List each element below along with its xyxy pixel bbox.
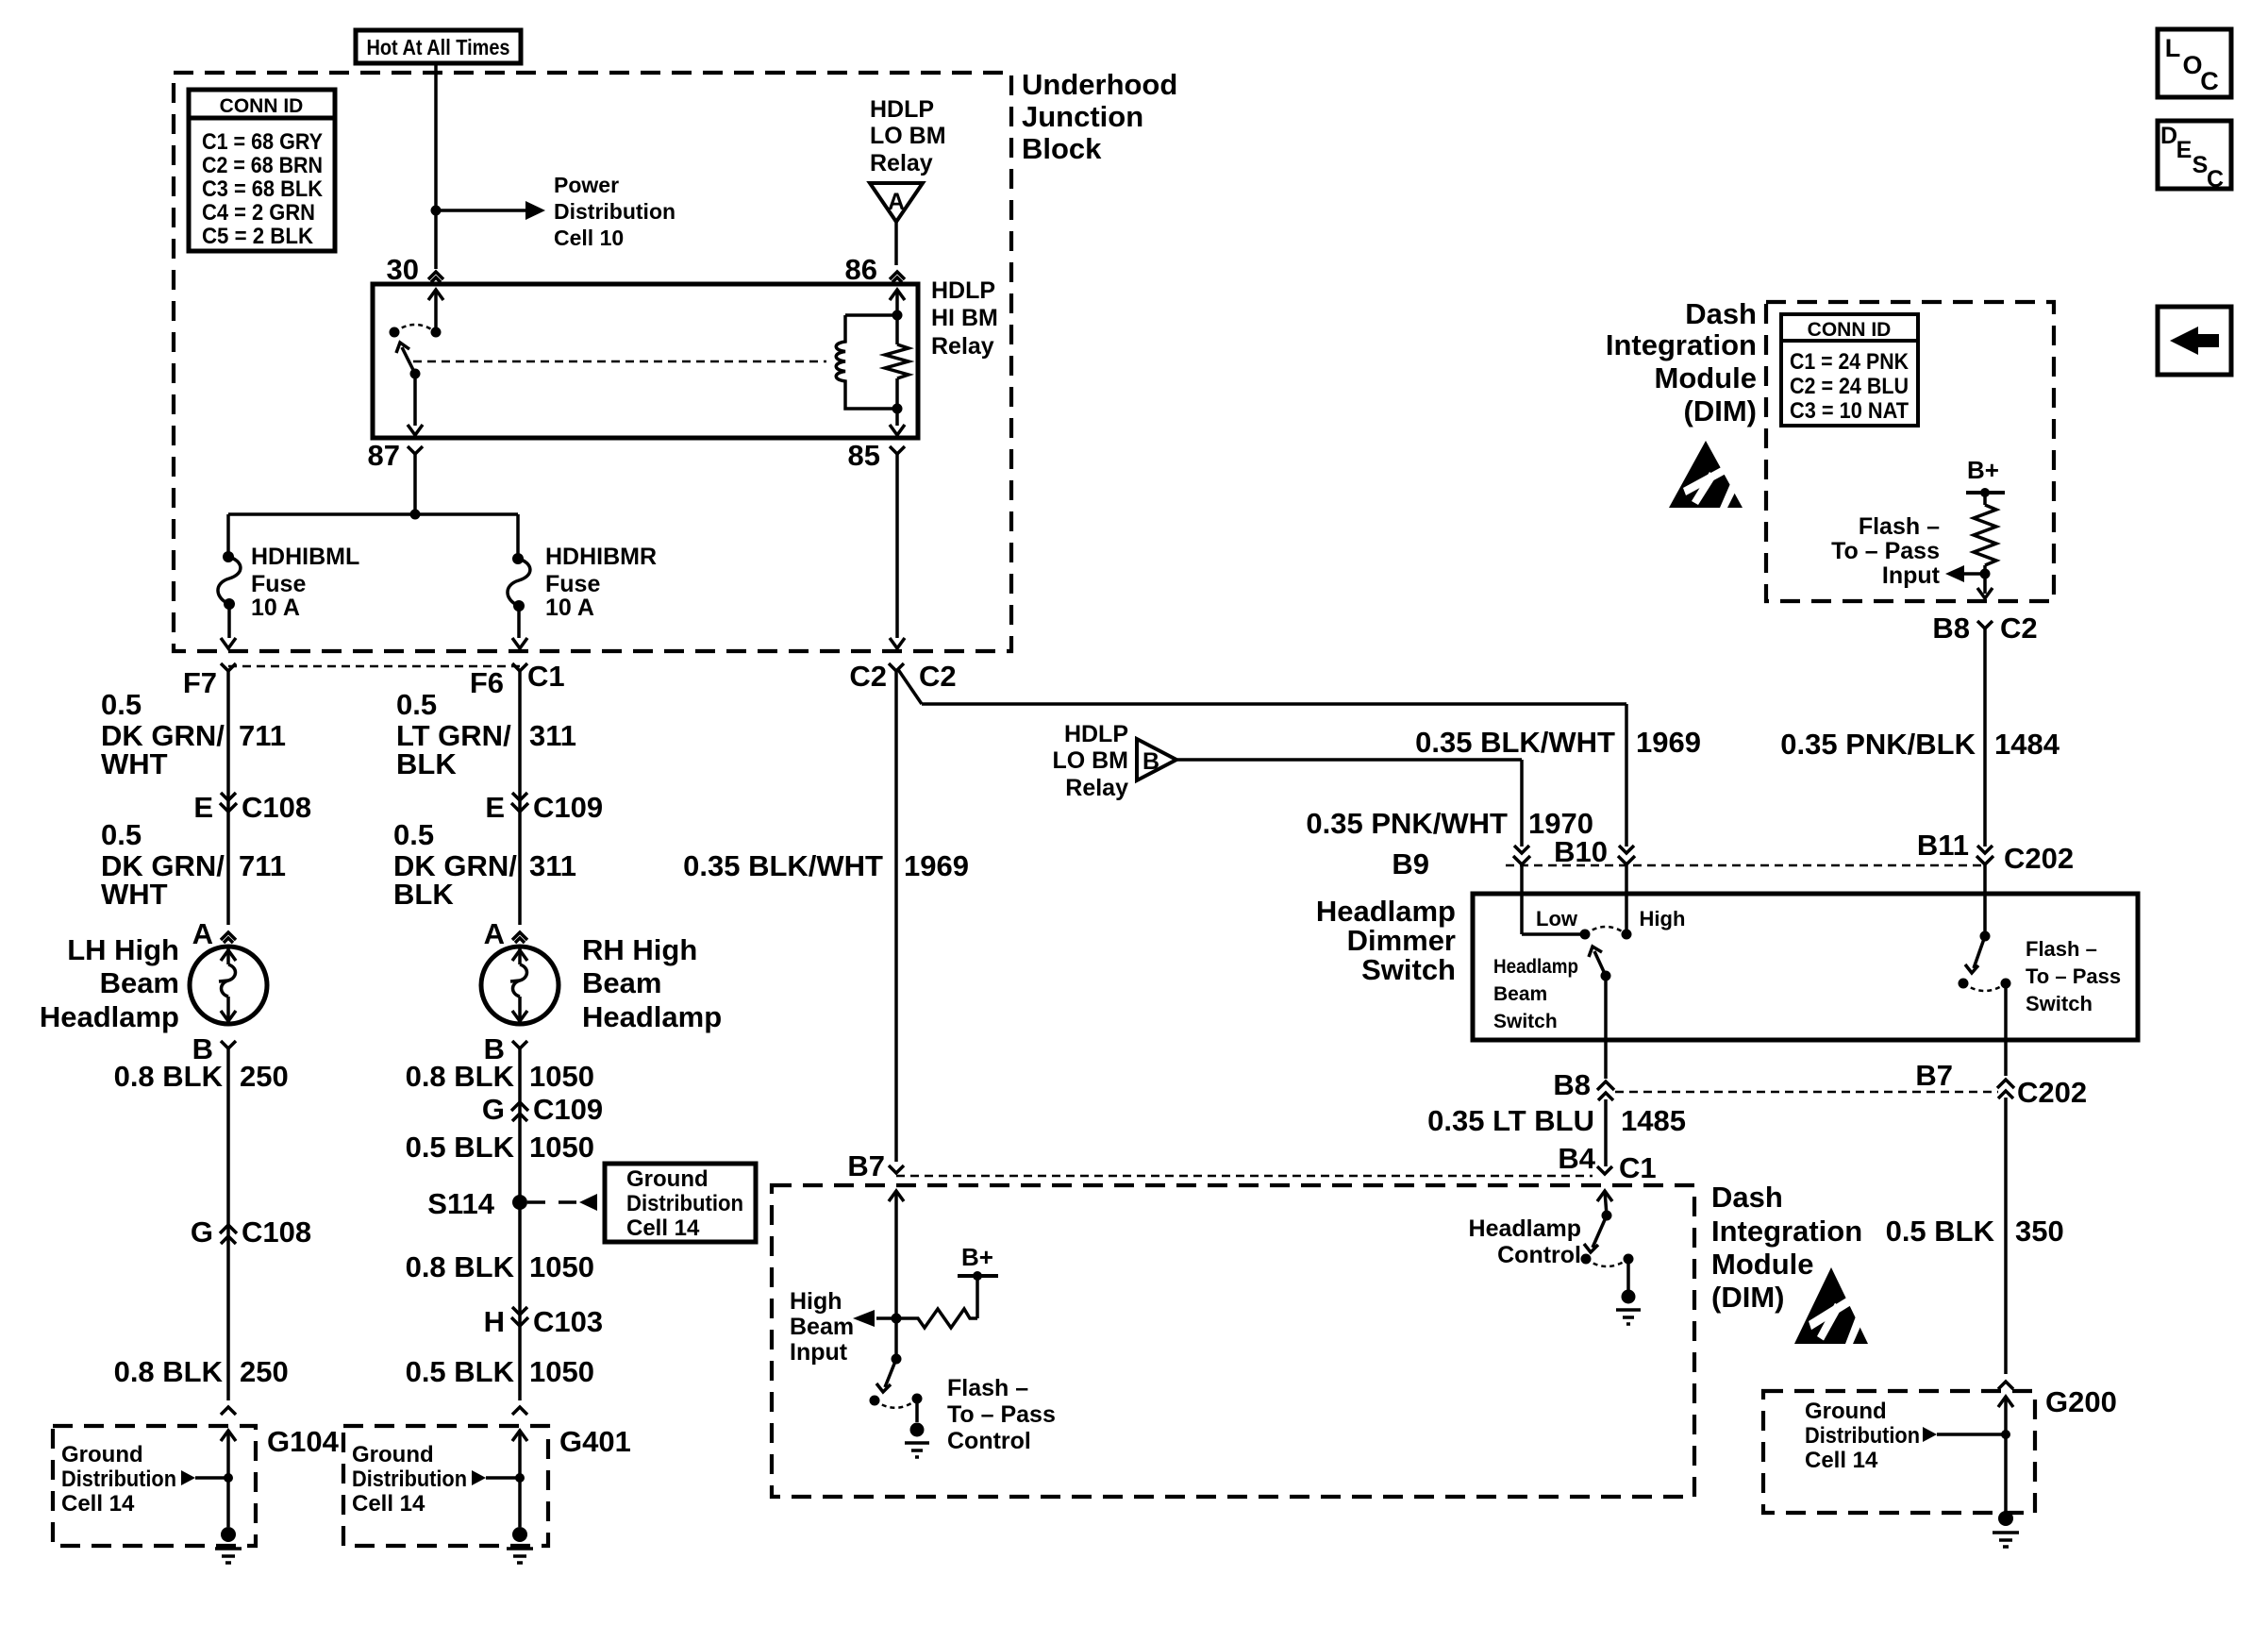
svg-text:Dimmer: Dimmer [1347,924,1456,957]
svg-text:1050: 1050 [529,1250,594,1283]
svg-text:Module: Module [1655,361,1758,394]
svg-text:C202: C202 [2017,1076,2087,1109]
svg-text:CONN ID: CONN ID [1808,319,1892,341]
svg-text:Integration: Integration [1606,328,1757,361]
svg-text:Fuse: Fuse [545,571,600,597]
svg-text:0.35 PNK/BLK: 0.35 PNK/BLK [1780,728,1976,761]
svg-text:Flash –: Flash – [2026,937,2097,961]
svg-text:Switch: Switch [1493,1011,1558,1032]
svg-text:Cell 14: Cell 14 [352,1491,425,1517]
svg-text:10 A: 10 A [251,595,300,621]
svg-text:C: C [2207,166,2224,193]
svg-text:350: 350 [2015,1215,2064,1248]
svg-text:Ground: Ground [1805,1399,1887,1424]
svg-text:Relay: Relay [1065,775,1128,801]
svg-text:Ground: Ground [626,1166,709,1192]
svg-text:G200: G200 [2045,1385,2117,1418]
svg-text:Control: Control [947,1428,1031,1454]
svg-text:HDLP: HDLP [870,96,934,123]
svg-text:Distribution: Distribution [61,1467,176,1492]
svg-text:Cell 14: Cell 14 [1805,1448,1878,1473]
svg-text:250: 250 [240,1060,289,1093]
svg-text:WHT: WHT [101,747,168,780]
svg-text:E: E [485,791,505,824]
svg-text:Headlamp: Headlamp [40,1000,179,1033]
svg-text:Headlamp: Headlamp [582,1000,722,1033]
svg-text:Ground: Ground [352,1442,434,1467]
svg-text:C2: C2 [919,660,957,693]
svg-text:Block: Block [1022,132,1102,165]
svg-text:Beam: Beam [1493,983,1547,1005]
svg-text:1485: 1485 [1621,1104,1686,1137]
svg-text:C1 = 68 GRY: C1 = 68 GRY [202,129,323,155]
svg-text:C2 = 24 BLU: C2 = 24 BLU [1790,374,1909,399]
svg-text:(DIM): (DIM) [1711,1281,1784,1314]
svg-text:Module: Module [1711,1248,1814,1281]
svg-text:30: 30 [387,253,419,286]
svg-text:B7: B7 [847,1149,885,1182]
svg-text:0.5: 0.5 [101,688,142,721]
svg-text:Distribution: Distribution [1805,1423,1920,1449]
svg-text:B+: B+ [961,1243,993,1271]
svg-text:Underhood: Underhood [1022,68,1177,101]
svg-text:87: 87 [368,439,400,472]
svg-text:B+: B+ [1967,456,1999,484]
svg-text:311: 311 [529,719,576,752]
svg-text:711: 711 [239,719,286,752]
svg-text:HDLP: HDLP [931,277,995,304]
svg-text:Dash: Dash [1711,1181,1783,1214]
svg-text:C3 = 68 BLK: C3 = 68 BLK [202,176,324,202]
svg-text:86: 86 [845,253,877,286]
svg-text:(DIM): (DIM) [1684,394,1757,427]
svg-text:C108: C108 [242,791,311,824]
svg-text:Cell 14: Cell 14 [626,1215,700,1241]
svg-text:High: High [1640,907,1686,930]
svg-text:Input: Input [1882,562,1941,589]
svg-text:B10: B10 [1554,835,1608,868]
svg-text:85: 85 [848,439,880,472]
svg-text:E: E [2176,137,2193,163]
svg-text:0.5: 0.5 [101,818,142,851]
svg-text:C1: C1 [1619,1151,1657,1184]
svg-text:B7: B7 [1915,1059,1953,1092]
svg-text:Relay: Relay [931,333,994,360]
svg-text:0.35 LT BLU: 0.35 LT BLU [1427,1104,1594,1137]
svg-text:WHT: WHT [101,878,168,911]
svg-text:0.5: 0.5 [396,688,437,721]
svg-text:C103: C103 [533,1305,603,1338]
svg-text:L: L [2165,34,2181,62]
svg-text:F6: F6 [470,666,504,699]
svg-text:To – Pass: To – Pass [1831,538,1940,564]
svg-text:Beam: Beam [100,966,179,999]
svg-text:LH High: LH High [67,933,179,966]
svg-text:HI BM: HI BM [931,305,998,331]
svg-text:0.5 BLK: 0.5 BLK [406,1355,515,1388]
svg-text:BLK: BLK [396,747,457,780]
svg-text:311: 311 [529,849,576,882]
svg-text:Ground: Ground [61,1442,143,1467]
svg-text:To – Pass: To – Pass [2026,964,2121,988]
svg-text:To – Pass: To – Pass [947,1401,1056,1428]
svg-text:Flash –: Flash – [947,1375,1028,1401]
svg-text:Distribution: Distribution [554,199,675,224]
svg-text:C5 = 2 BLK: C5 = 2 BLK [202,224,314,249]
svg-text:Relay: Relay [870,150,933,176]
svg-text:711: 711 [239,849,286,882]
svg-text:G401: G401 [559,1425,631,1458]
svg-text:0.8 BLK: 0.8 BLK [406,1250,515,1283]
svg-text:0.8 BLK: 0.8 BLK [114,1060,224,1093]
svg-text:Low: Low [1536,907,1578,930]
svg-text:C1 = 24 PNK: C1 = 24 PNK [1790,349,1909,375]
svg-text:Cell 14: Cell 14 [61,1491,135,1517]
svg-text:0.8 BLK: 0.8 BLK [114,1355,224,1388]
svg-text:G: G [482,1093,505,1126]
svg-text:1050: 1050 [529,1060,594,1093]
svg-text:Switch: Switch [1361,953,1456,986]
svg-text:S: S [2193,152,2209,178]
svg-text:0.35 PNK/WHT: 0.35 PNK/WHT [1306,807,1508,840]
svg-text:1484: 1484 [1994,728,2060,761]
svg-text:0.35 BLK/WHT: 0.35 BLK/WHT [683,849,883,882]
svg-text:Beam: Beam [790,1314,854,1340]
svg-text:B9: B9 [1392,847,1429,880]
svg-text:C109: C109 [533,1093,603,1126]
svg-text:C3 = 10 NAT: C3 = 10 NAT [1790,398,1909,424]
svg-text:Dash: Dash [1685,297,1757,330]
svg-text:Junction: Junction [1022,100,1143,133]
svg-text:Distribution: Distribution [352,1467,467,1492]
svg-text:Fuse: Fuse [251,571,306,597]
svg-text:A: A [484,917,505,950]
svg-text:C2: C2 [849,660,887,693]
svg-text:RH High: RH High [582,933,697,966]
svg-text:Integration: Integration [1711,1215,1862,1248]
svg-text:E: E [193,791,213,824]
svg-text:Control: Control [1497,1242,1581,1268]
svg-text:HDHIBML: HDHIBML [251,544,359,570]
svg-text:A: A [888,189,905,215]
svg-text:B11: B11 [1917,829,1969,862]
svg-text:High: High [790,1288,842,1315]
svg-text:C4 = 2 GRN: C4 = 2 GRN [202,200,315,226]
svg-text:C1: C1 [527,660,565,693]
svg-text:HDHIBMR: HDHIBMR [545,544,657,570]
svg-text:CONN ID: CONN ID [220,95,304,117]
svg-text:Cell 10: Cell 10 [554,226,624,250]
svg-text:C202: C202 [2004,842,2074,875]
svg-text:Beam: Beam [582,966,661,999]
svg-text:G104: G104 [267,1425,340,1458]
svg-text:H: H [484,1305,505,1338]
svg-text:0.8 BLK: 0.8 BLK [406,1060,515,1093]
svg-text:Input: Input [790,1339,848,1366]
svg-text:10 A: 10 A [545,595,594,621]
svg-text:B8: B8 [1932,612,1970,645]
svg-text:Switch: Switch [2026,992,2093,1015]
svg-text:LO BM: LO BM [870,123,946,149]
svg-text:Flash –: Flash – [1859,513,1940,540]
svg-text:HDLP: HDLP [1064,721,1128,747]
svg-text:G: G [191,1215,213,1249]
svg-text:B4: B4 [1558,1142,1595,1175]
svg-text:D: D [2160,123,2177,149]
svg-text:0.5 BLK: 0.5 BLK [1886,1215,1995,1248]
svg-text:S114: S114 [427,1187,494,1220]
svg-text:BLK: BLK [393,878,454,911]
svg-text:Distribution: Distribution [626,1191,743,1216]
svg-text:1050: 1050 [529,1131,594,1164]
svg-text:F7: F7 [183,666,217,699]
svg-text:0.5: 0.5 [393,818,434,851]
svg-text:C: C [2200,67,2219,95]
svg-text:B8: B8 [1553,1068,1591,1101]
svg-text:C2 = 68 BRN: C2 = 68 BRN [202,153,323,178]
svg-text:1969: 1969 [904,849,969,882]
svg-text:1969: 1969 [1636,726,1701,759]
svg-text:Power: Power [554,173,619,197]
svg-text:C109: C109 [533,791,603,824]
svg-text:A: A [192,917,213,950]
svg-text:C2: C2 [2000,612,2038,645]
svg-text:C108: C108 [242,1215,311,1249]
svg-text:1050: 1050 [529,1355,594,1388]
svg-text:LO BM: LO BM [1052,747,1128,774]
svg-text:0.5 BLK: 0.5 BLK [406,1131,515,1164]
svg-text:Hot At All Times: Hot At All Times [367,35,510,59]
svg-text:0.35 BLK/WHT: 0.35 BLK/WHT [1415,726,1615,759]
svg-text:Headlamp: Headlamp [1316,895,1456,928]
svg-text:250: 250 [240,1355,289,1388]
svg-text:B: B [1142,748,1159,775]
svg-text:Headlamp: Headlamp [1493,956,1578,978]
svg-text:Headlamp: Headlamp [1469,1215,1581,1242]
